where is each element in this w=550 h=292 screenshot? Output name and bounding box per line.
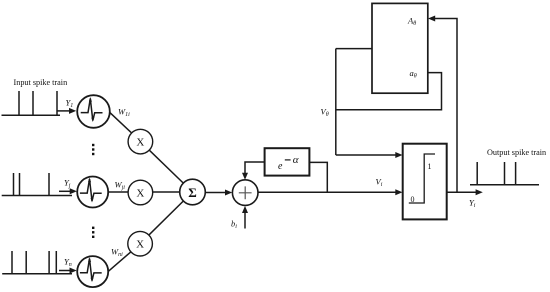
svg-text:Output spike train: Output spike train xyxy=(487,148,546,157)
svg-text:e: e xyxy=(278,161,283,172)
svg-text:Input spike train: Input spike train xyxy=(14,78,68,87)
svg-text:X: X xyxy=(136,187,144,199)
svg-text:0: 0 xyxy=(411,195,415,204)
svg-text:X: X xyxy=(136,239,144,251)
svg-text:X: X xyxy=(136,137,144,149)
svg-text:Σ: Σ xyxy=(188,185,197,200)
svg-text:1: 1 xyxy=(428,162,432,171)
svg-text:α: α xyxy=(293,154,299,166)
